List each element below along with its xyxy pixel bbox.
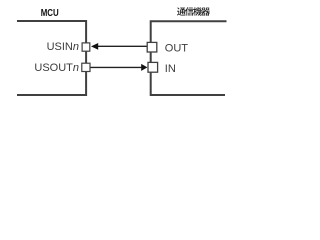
svg-text:USOUTn: USOUTn: [34, 62, 79, 74]
svg-text:MCU: MCU: [41, 8, 59, 19]
svg-text:OUT: OUT: [165, 43, 189, 55]
svg-text:IN: IN: [165, 63, 176, 75]
svg-text:USINn: USINn: [47, 41, 79, 53]
